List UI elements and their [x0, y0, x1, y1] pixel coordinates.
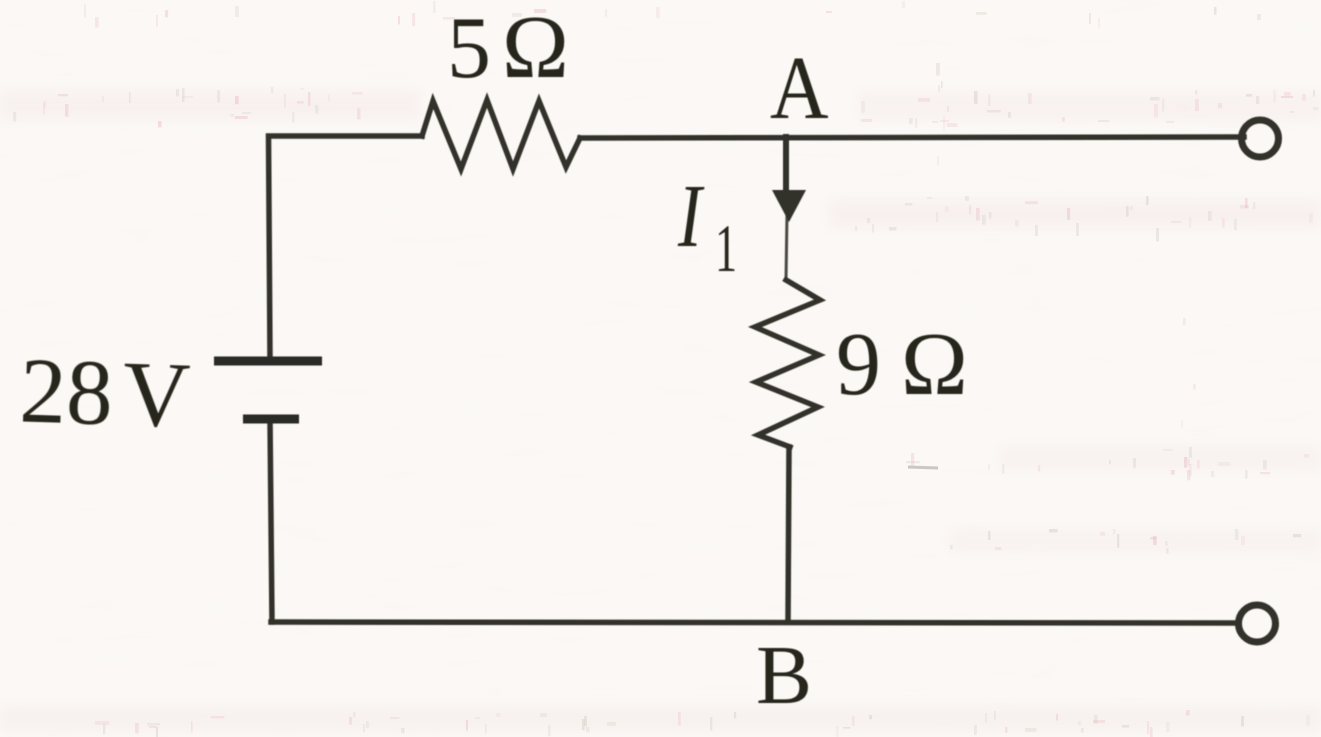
- svg-text:5: 5: [447, 0, 491, 97]
- svg-text:A: A: [770, 38, 829, 138]
- svg-text:1: 1: [715, 212, 737, 287]
- svg-text:Ω: Ω: [502, 0, 569, 97]
- svg-text:Ω: Ω: [901, 315, 968, 414]
- svg-text:B: B: [756, 629, 812, 722]
- svg-text:28: 28: [18, 339, 114, 445]
- svg-text:V: V: [121, 343, 191, 448]
- svg-text:I: I: [677, 166, 705, 266]
- svg-text:9: 9: [836, 315, 881, 414]
